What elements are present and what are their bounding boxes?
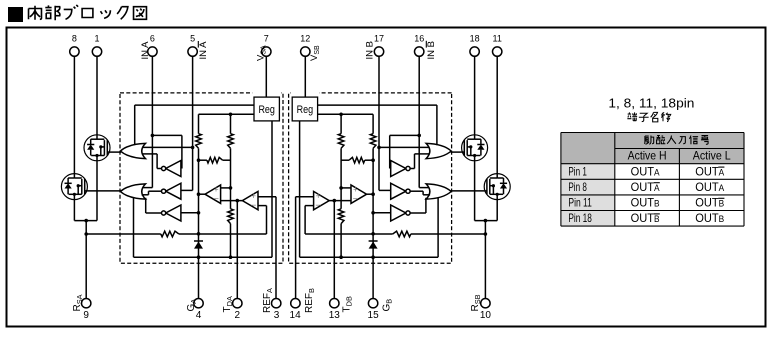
wire R1 column down	[198, 148, 200, 234]
label RSA (pin 9)	[72, 294, 84, 311]
label TDB (pin 13)	[342, 296, 354, 312]
svg-text:3: 3	[274, 310, 280, 321]
svg-text:2: 2	[235, 310, 241, 321]
table shading	[561, 133, 744, 164]
svg-text:OUTA: OUTA	[631, 164, 660, 178]
svg-text:OUTB: OUTB	[631, 196, 660, 210]
wire pin1 to Q1 drain	[96, 56, 98, 135]
label TDA (pin 2)	[222, 296, 234, 312]
wire Q2 source down	[73, 200, 75, 221]
inverter INV1	[166, 161, 181, 177]
svg-text:OUTB: OUTB	[695, 211, 724, 225]
junction R3 left	[197, 158, 201, 162]
pin 2 terminal	[233, 299, 242, 308]
junction INV3 input tee	[197, 211, 201, 215]
wire pin6 input	[151, 56, 153, 188]
svg-text:IN A: IN A	[140, 41, 151, 60]
pin 7 terminal	[262, 47, 271, 56]
junction A1 plus node	[229, 186, 233, 190]
white gap for Reg over dashed edge	[253, 90, 282, 123]
label VSB (pin 12)	[309, 45, 321, 61]
pin 5 terminal	[188, 47, 197, 56]
label RSB (pin 10)	[470, 294, 482, 311]
rail Reg to G1 top	[135, 104, 254, 106]
svg-text:Reg: Reg	[258, 104, 275, 116]
wire Q1 source down	[96, 161, 98, 221]
svg-text:11: 11	[493, 33, 502, 43]
bottom rail	[133, 198, 135, 257]
label IN B (pin 17)	[365, 41, 376, 59]
resistor R1	[198, 114, 200, 133]
label VSA (pin 7)	[256, 45, 268, 61]
svg-text:OUTB: OUTB	[631, 211, 660, 225]
NOR gate G2	[120, 184, 145, 199]
clamp diode D1	[198, 234, 200, 299]
svg-text:OUTA: OUTA	[631, 180, 660, 194]
svg-text:Reg: Reg	[297, 104, 314, 116]
wire INV1 out to G1	[157, 168, 162, 170]
pin 1 terminal	[92, 47, 101, 56]
svg-text:15: 15	[368, 310, 380, 321]
rail Reg to R1	[199, 113, 255, 115]
junction pin6 branch	[151, 134, 155, 138]
junction pin5 branch	[191, 146, 195, 150]
resistor R3	[199, 159, 207, 161]
resistor R2	[230, 114, 232, 133]
junction rail/pin4	[197, 255, 201, 259]
svg-text:+: +	[251, 191, 256, 201]
svg-text:OUTA: OUTA	[695, 164, 724, 178]
svg-text:IN A: IN A	[198, 41, 209, 60]
svg-text:IN B: IN B	[426, 41, 437, 59]
wire A1 plus input	[221, 187, 231, 189]
wire pin7 to Reg	[265, 56, 267, 97]
junction A1 output node	[197, 192, 201, 196]
wire pin8 to Q2 drain	[73, 56, 75, 174]
svg-text:Active L: Active L	[693, 149, 731, 163]
junction source join	[84, 219, 88, 223]
resistor R5	[161, 231, 179, 237]
pin 8 terminal	[70, 47, 79, 56]
pin 9 terminal	[82, 299, 91, 308]
wire Q1 gate to G1 output	[110, 151, 121, 153]
svg-text:Pin 11: Pin 11	[568, 196, 592, 210]
wire INV3 input from comparator	[181, 212, 198, 214]
sense line	[86, 233, 161, 235]
pin 6 terminal	[148, 47, 157, 56]
LEFT half circuit	[61, 47, 283, 308]
label IN A (pin 6)	[140, 41, 151, 60]
svg-text:10: 10	[480, 310, 492, 321]
svg-text:Pin 18: Pin 18	[568, 211, 592, 225]
regulator Reg U-A	[254, 97, 279, 121]
pin 4 terminal	[194, 299, 203, 308]
svg-text:1, 8, 11, 18pin: 1, 8, 11, 18pin	[608, 96, 694, 111]
svg-text:−: −	[250, 200, 256, 211]
junction diode anode node	[197, 232, 201, 236]
label IN B-bar (pin 16)	[426, 41, 437, 60]
resistor R4	[228, 209, 234, 224]
power MOSFET Q2 (OUT A-bar, bottom)	[61, 174, 87, 200]
header 励磁入力信号	[644, 136, 653, 145]
svg-text:OUTA: OUTA	[695, 180, 724, 194]
svg-text:16: 16	[414, 33, 424, 43]
table grid	[561, 133, 744, 227]
wire pin2 column	[236, 201, 238, 299]
junction R2 top	[229, 113, 233, 117]
wire pin6 branch to INV1	[152, 134, 182, 136]
label GB (pin 15)	[382, 299, 394, 312]
svg-text:+: +	[213, 184, 218, 194]
junction A2 output node	[236, 199, 240, 203]
svg-text:5: 5	[190, 33, 195, 43]
svg-text:IN B: IN B	[365, 41, 376, 59]
wire R2 column down	[230, 148, 232, 209]
RIGHT half circuit (mirror)	[289, 47, 511, 308]
pin 3 terminal	[272, 299, 281, 308]
title	[8, 7, 23, 22]
label IN A-bar (pin 5)	[198, 41, 209, 60]
power MOSFET Q1 (OUT A, top)	[84, 135, 110, 161]
junction sense tap	[84, 232, 88, 236]
svg-text:12: 12	[300, 33, 310, 43]
wire Q2 gate to G2 output	[87, 190, 121, 192]
amplifier A2	[242, 191, 258, 209]
wire pin5 branch to G1	[142, 146, 193, 148]
wire sense drop to pin 9	[85, 221, 87, 299]
wire A2 minus input	[258, 205, 267, 207]
comparator A1	[205, 185, 221, 203]
inverter INV3	[166, 205, 181, 221]
svg-text:Active H: Active H	[628, 149, 667, 163]
svg-text:7: 7	[264, 33, 269, 43]
label REFB (pin 14)	[304, 288, 316, 313]
junction rail/R4	[229, 255, 233, 259]
svg-text:14: 14	[290, 310, 302, 321]
svg-text:OUTB: OUTB	[695, 196, 724, 210]
svg-text:−: −	[213, 194, 219, 205]
wire source join	[74, 220, 97, 222]
svg-text:Pin 8: Pin 8	[568, 180, 587, 194]
label GA (pin 4)	[186, 299, 198, 312]
svg-text:18: 18	[470, 33, 480, 43]
dashed block boundary (channel A)	[120, 93, 283, 263]
svg-text:9: 9	[83, 310, 89, 321]
svg-text:8: 8	[72, 33, 77, 43]
wire A2 output to A1 minus	[221, 200, 243, 202]
inverter INV2	[166, 183, 181, 199]
comparator A1 output to node	[199, 193, 206, 195]
wire INV2 out to G2	[149, 190, 163, 192]
wire A2 plus input to pin3	[258, 196, 276, 198]
NOR gate G1	[120, 143, 145, 158]
svg-text:13: 13	[329, 310, 341, 321]
svg-text:Pin 1: Pin 1	[568, 164, 587, 178]
svg-text:1: 1	[94, 33, 99, 43]
wire pin5 input	[192, 56, 194, 190]
wire INV3 out to G2 bottom	[146, 212, 162, 214]
label REFA (pin 3)	[262, 288, 274, 313]
